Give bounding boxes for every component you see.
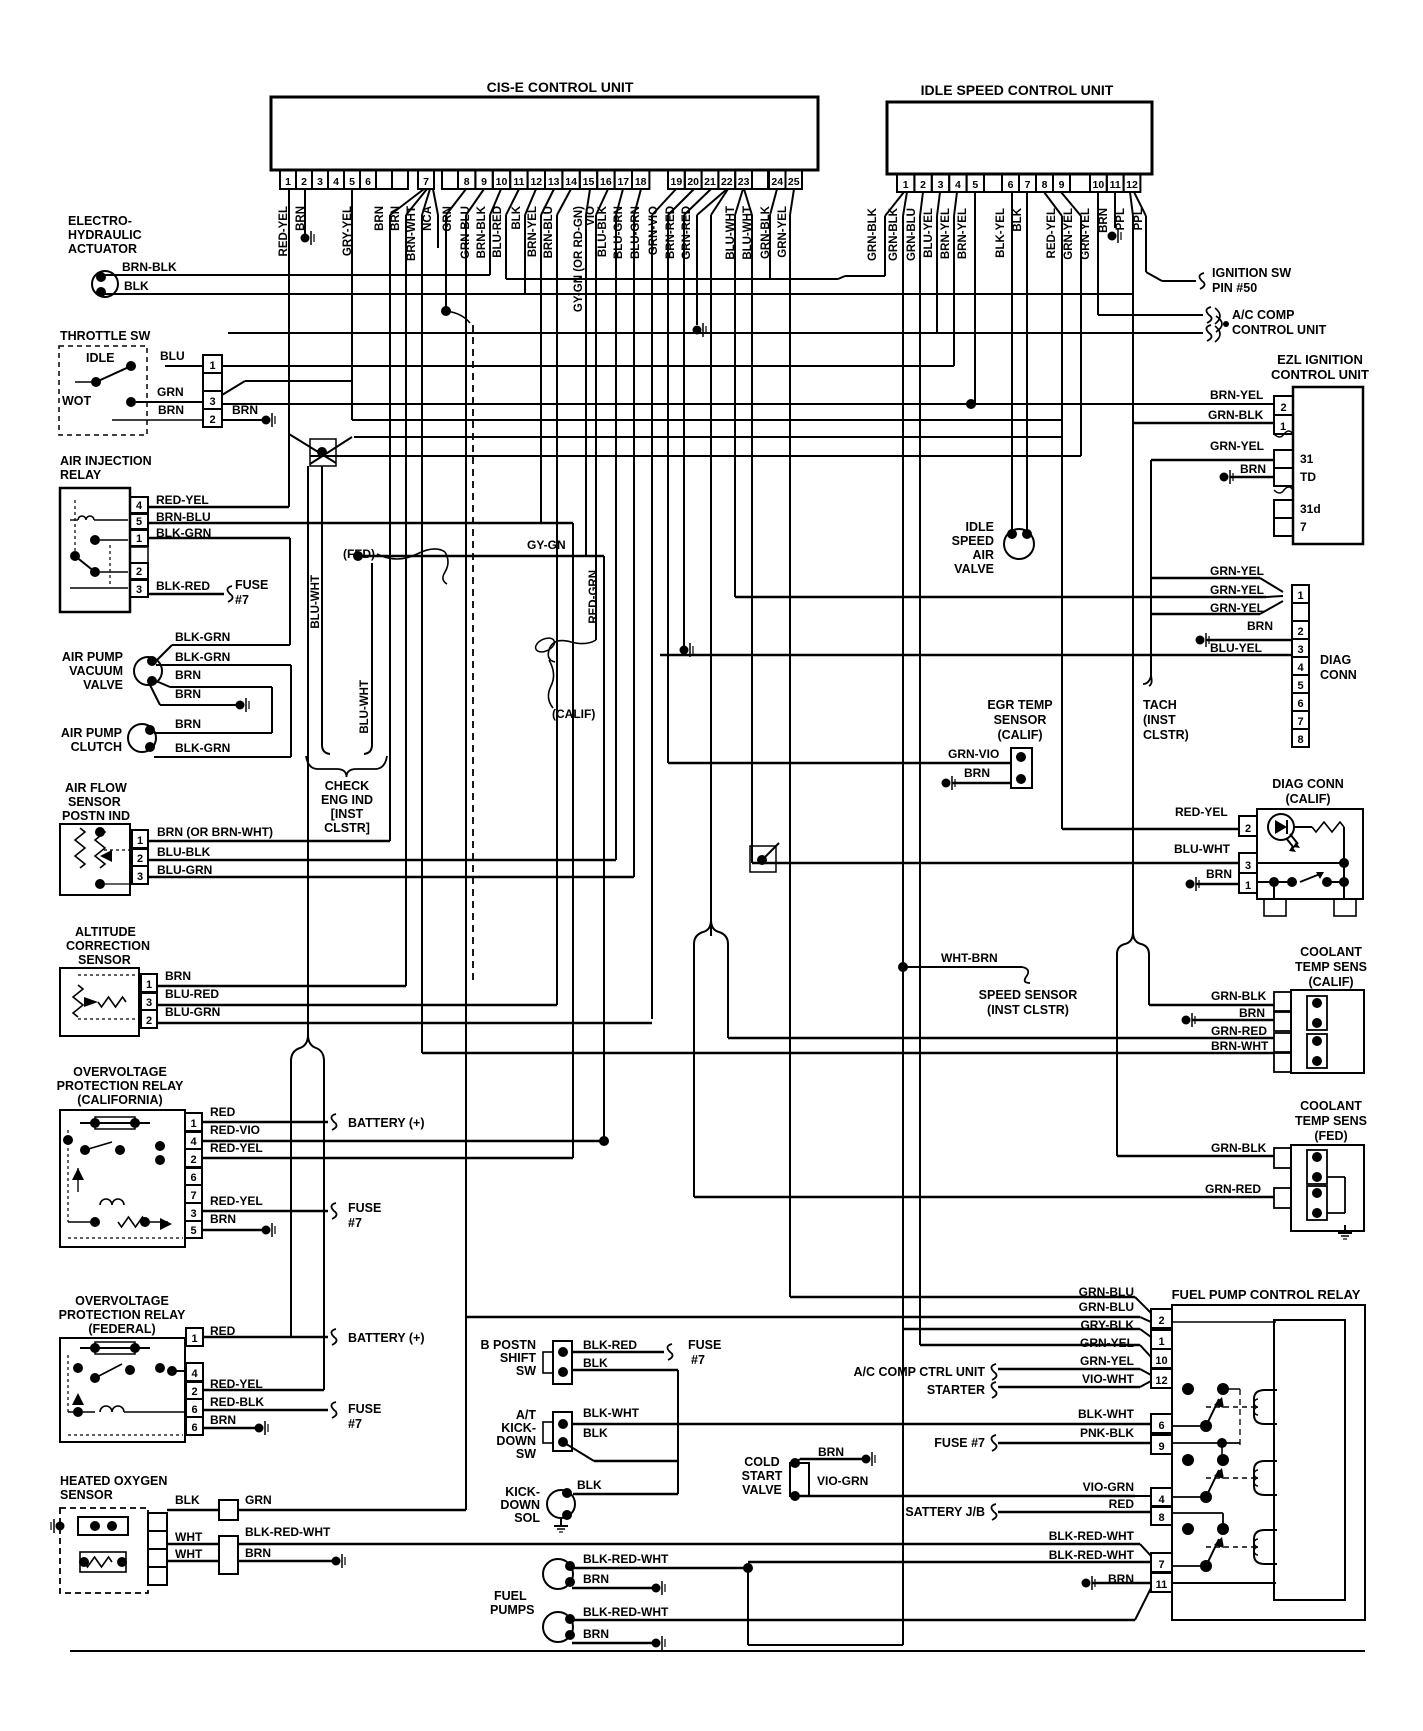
svg-text:GRN-YEL: GRN-YEL (777, 206, 789, 258)
svg-text:GRN-YEL: GRN-YEL (1080, 1354, 1134, 1368)
svg-text:BLK: BLK (511, 205, 523, 229)
svg-text:CORRECTION: CORRECTION (66, 939, 150, 953)
svg-text:2: 2 (1280, 402, 1286, 414)
svg-text:4: 4 (136, 500, 143, 512)
svg-text:B POSTN: B POSTN (480, 1338, 536, 1352)
svg-text:BLK-RED-WHT: BLK-RED-WHT (245, 1525, 331, 1539)
svg-text:CONTROL UNIT: CONTROL UNIT (1271, 367, 1369, 382)
svg-text:BRN-BLK: BRN-BLK (122, 260, 177, 274)
svg-text:#7: #7 (348, 1417, 362, 1431)
svg-text:AIR PUMP: AIR PUMP (62, 650, 123, 664)
svg-text:FUSE: FUSE (235, 578, 268, 592)
svg-text:6: 6 (1158, 1420, 1164, 1432)
svg-text:PIN #50: PIN #50 (1212, 281, 1257, 295)
svg-text:AIR: AIR (972, 548, 994, 562)
svg-text:3: 3 (1297, 644, 1303, 656)
svg-text:ACTUATOR: ACTUATOR (68, 242, 137, 256)
svg-text:BLU-GRN: BLU-GRN (630, 206, 642, 259)
svg-text:FUSE: FUSE (348, 1201, 381, 1215)
svg-text:KICK-: KICK- (505, 1485, 540, 1499)
svg-text:25: 25 (788, 176, 800, 188)
svg-text:SOL: SOL (514, 1511, 540, 1525)
svg-text:(CALIF): (CALIF) (1308, 975, 1353, 989)
svg-text:2: 2 (136, 566, 142, 578)
svg-text:GRN: GRN (442, 206, 454, 232)
svg-text:OVERVOLTAGE: OVERVOLTAGE (73, 1065, 167, 1079)
svg-text:VIO-WHT: VIO-WHT (1082, 1372, 1135, 1386)
svg-text:3: 3 (137, 871, 143, 883)
svg-text:2: 2 (1158, 1315, 1164, 1327)
svg-text:BLK-GRN: BLK-GRN (175, 741, 230, 755)
svg-text:BATTERY (+): BATTERY (+) (348, 1116, 425, 1130)
svg-text:RED-YEL: RED-YEL (156, 493, 209, 507)
svg-text:VALVE: VALVE (83, 678, 123, 692)
svg-text:3: 3 (136, 584, 142, 596)
svg-text:FUSE: FUSE (348, 1402, 381, 1416)
svg-text:6: 6 (191, 1422, 197, 1434)
svg-text:(INST CLSTR): (INST CLSTR) (987, 1003, 1069, 1017)
svg-text:7: 7 (1025, 179, 1031, 191)
svg-text:1: 1 (137, 835, 143, 847)
svg-text:6: 6 (191, 1404, 197, 1416)
svg-text:A/T: A/T (516, 1408, 537, 1422)
svg-text:HEATED OXYGEN: HEATED OXYGEN (60, 1474, 167, 1488)
svg-text:BLU: BLU (160, 349, 185, 363)
svg-text:6: 6 (1008, 179, 1014, 191)
svg-text:BATTERY (+): BATTERY (+) (348, 1331, 425, 1345)
svg-text:(CALIF): (CALIF) (997, 728, 1042, 742)
svg-text:TACH: TACH (1143, 698, 1177, 712)
svg-text:PUMPS: PUMPS (490, 1603, 534, 1617)
svg-text:CONN: CONN (1320, 668, 1357, 682)
svg-text:8: 8 (464, 176, 470, 188)
svg-text:3: 3 (938, 179, 944, 191)
svg-text:11: 11 (1110, 179, 1121, 191)
svg-text:VALVE: VALVE (742, 1483, 782, 1497)
svg-text:GRN-BLK: GRN-BLK (888, 207, 900, 261)
svg-text:7: 7 (423, 176, 429, 188)
svg-text:GRN-YEL: GRN-YEL (1210, 564, 1264, 578)
svg-text:FUSE: FUSE (688, 1338, 721, 1352)
svg-text:1: 1 (285, 176, 291, 188)
svg-text:GRN-YEL: GRN-YEL (1063, 208, 1075, 260)
svg-text:2: 2 (1245, 823, 1251, 835)
svg-text:23: 23 (738, 176, 750, 188)
svg-text:EGR TEMP: EGR TEMP (987, 698, 1052, 712)
svg-text:VACUUM: VACUUM (69, 664, 123, 678)
svg-text:22: 22 (721, 176, 733, 188)
svg-text:GY-GN: GY-GN (527, 538, 566, 552)
svg-text:GRN-YEL: GRN-YEL (1080, 1336, 1134, 1350)
svg-text:3: 3 (1245, 860, 1251, 872)
svg-text:BRN: BRN (583, 1627, 609, 1641)
svg-text:31d: 31d (1300, 502, 1321, 516)
svg-text:GRN-BLK: GRN-BLK (1208, 408, 1264, 422)
svg-text:8: 8 (1158, 1512, 1164, 1524)
svg-text:BLU-BLK: BLU-BLK (597, 205, 609, 257)
svg-text:12: 12 (530, 176, 542, 188)
svg-text:DOWN: DOWN (500, 1498, 540, 1512)
svg-text:BRN: BRN (1206, 867, 1232, 881)
svg-text:A/C COMP: A/C COMP (1232, 308, 1295, 322)
svg-text:GRN: GRN (245, 1493, 272, 1507)
svg-text:CLSTR): CLSTR) (1143, 728, 1189, 742)
svg-text:(FEDERAL): (FEDERAL) (88, 1322, 155, 1336)
svg-text:GY-GN (OR RD-GN): GY-GN (OR RD-GN) (573, 206, 585, 312)
svg-text:CHECK: CHECK (325, 779, 369, 793)
svg-text:5: 5 (190, 1225, 196, 1237)
svg-text:4: 4 (1158, 1494, 1165, 1506)
svg-text:BLU-GRN: BLU-GRN (613, 206, 625, 259)
svg-text:CONTROL UNIT: CONTROL UNIT (1232, 323, 1327, 337)
svg-text:AIR INJECTION: AIR INJECTION (60, 454, 152, 468)
svg-text:20: 20 (687, 176, 699, 188)
svg-text:STARTER: STARTER (927, 1383, 985, 1397)
svg-text:TEMP SENS: TEMP SENS (1295, 960, 1367, 974)
svg-text:BLU-YEL: BLU-YEL (923, 208, 935, 258)
svg-text:(FED): (FED) (1314, 1129, 1347, 1143)
svg-text:BLK: BLK (583, 1356, 608, 1370)
svg-text:7: 7 (1158, 1559, 1164, 1571)
svg-text:11: 11 (1156, 1579, 1168, 1591)
svg-text:BRN: BRN (964, 766, 990, 780)
svg-text:COLD: COLD (744, 1455, 779, 1469)
svg-text:(CALIFORNIA): (CALIFORNIA) (77, 1093, 162, 1107)
svg-text:12: 12 (1155, 1375, 1167, 1387)
svg-text:GRN-BLU: GRN-BLU (906, 208, 918, 261)
svg-text:BRN-YEL: BRN-YEL (940, 208, 952, 259)
svg-text:WHT: WHT (175, 1547, 203, 1561)
svg-text:11: 11 (513, 176, 524, 188)
svg-text:1: 1 (1158, 1336, 1164, 1348)
svg-text:BRN: BRN (175, 668, 201, 682)
svg-text:15: 15 (583, 176, 595, 188)
svg-text:BLU-WHT: BLU-WHT (1174, 842, 1231, 856)
svg-text:19: 19 (671, 176, 683, 188)
svg-text:4: 4 (190, 1136, 197, 1148)
svg-text:BRN: BRN (1239, 1006, 1265, 1020)
svg-text:THROTTLE SW: THROTTLE SW (60, 329, 150, 343)
svg-text:BLU-RED: BLU-RED (165, 987, 219, 1001)
svg-text:1: 1 (903, 179, 909, 191)
svg-text:6: 6 (365, 176, 371, 188)
svg-text:BLU-RED: BLU-RED (492, 206, 504, 258)
svg-text:BRN-BLU: BRN-BLU (543, 206, 555, 258)
svg-text:RED: RED (210, 1105, 236, 1119)
svg-text:IDLE: IDLE (966, 520, 994, 534)
svg-text:31: 31 (1300, 452, 1314, 466)
svg-text:1: 1 (209, 360, 215, 372)
svg-text:RED-GRN: RED-GRN (588, 570, 600, 624)
svg-text:WHT: WHT (175, 1530, 203, 1544)
svg-text:HYDRAULIC: HYDRAULIC (68, 228, 142, 242)
svg-text:SENSOR: SENSOR (60, 1488, 113, 1502)
svg-text:BLK-RED-WHT: BLK-RED-WHT (583, 1552, 669, 1566)
svg-text:GRN-BLK: GRN-BLK (1211, 989, 1267, 1003)
svg-text:OVERVOLTAGE: OVERVOLTAGE (75, 1294, 169, 1308)
svg-text:8: 8 (1042, 179, 1048, 191)
svg-text:TD: TD (1300, 470, 1316, 484)
svg-text:BRN: BRN (158, 403, 184, 417)
svg-text:RED-VIO: RED-VIO (210, 1123, 260, 1137)
svg-text:4: 4 (1297, 662, 1304, 674)
svg-text:BLU-WHT: BLU-WHT (359, 680, 371, 734)
svg-text:FUSE #7: FUSE #7 (934, 1436, 985, 1450)
svg-text:SPEED: SPEED (952, 534, 994, 548)
svg-text:BLU-GRN: BLU-GRN (165, 1005, 220, 1019)
svg-text:BRN-RED: BRN-RED (665, 206, 677, 259)
svg-text:IGNITION SW: IGNITION SW (1212, 266, 1291, 280)
svg-text:BLK: BLK (583, 1426, 608, 1440)
svg-text:BLK-GRN: BLK-GRN (175, 630, 230, 644)
svg-text:BLK: BLK (577, 1478, 602, 1492)
svg-text:BLK-WHT: BLK-WHT (583, 1406, 640, 1420)
svg-text:SW: SW (516, 1447, 536, 1461)
svg-text:BLK: BLK (175, 1493, 200, 1507)
svg-text:GRN-VIO: GRN-VIO (948, 747, 999, 761)
svg-text:3: 3 (317, 176, 323, 188)
svg-text:3: 3 (190, 1208, 196, 1220)
svg-text:#7: #7 (348, 1216, 362, 1230)
svg-text:1: 1 (190, 1118, 196, 1130)
svg-text:(INST: (INST (1143, 713, 1176, 727)
svg-text:RED-YEL: RED-YEL (1046, 208, 1058, 258)
svg-text:GRN-BLK: GRN-BLK (1211, 1141, 1267, 1155)
svg-text:GRN-BLK: GRN-BLK (867, 207, 879, 261)
svg-text:BRN: BRN (210, 1413, 236, 1427)
svg-text:SENSOR: SENSOR (68, 795, 121, 809)
svg-text:BRN: BRN (583, 1572, 609, 1586)
svg-text:IDLE SPEED CONTROL UNIT: IDLE SPEED CONTROL UNIT (921, 82, 1114, 98)
svg-text:BLK: BLK (1012, 207, 1024, 231)
svg-text:9: 9 (1059, 179, 1065, 191)
svg-text:GRN-RED: GRN-RED (681, 206, 693, 260)
svg-text:BLK-RED: BLK-RED (583, 1338, 637, 1352)
svg-text:4: 4 (191, 1368, 198, 1380)
svg-text:RELAY: RELAY (60, 468, 102, 482)
svg-text:BLK: BLK (124, 279, 149, 293)
svg-text:2: 2 (191, 1386, 197, 1398)
svg-text:2: 2 (190, 1154, 196, 1166)
svg-text:GRN-BLU: GRN-BLU (1079, 1300, 1134, 1314)
svg-text:1: 1 (146, 979, 152, 991)
svg-text:BLK-RED-WHT: BLK-RED-WHT (1049, 1529, 1135, 1543)
svg-text:5: 5 (136, 516, 142, 528)
svg-text:16: 16 (600, 176, 612, 188)
svg-text:GRN: GRN (157, 385, 184, 399)
svg-text:BRN (OR BRN-WHT): BRN (OR BRN-WHT) (157, 825, 273, 839)
svg-text:TEMP SENS: TEMP SENS (1295, 1114, 1367, 1128)
svg-text:BRN: BRN (175, 687, 201, 701)
svg-text:GRN-YEL: GRN-YEL (1210, 583, 1264, 597)
svg-text:8: 8 (1297, 734, 1303, 746)
svg-text:(CALIF): (CALIF) (1285, 792, 1330, 806)
svg-text:2: 2 (920, 179, 926, 191)
svg-text:ALTITUDE: ALTITUDE (75, 925, 136, 939)
svg-text:BLK-RED-WHT: BLK-RED-WHT (583, 1605, 669, 1619)
svg-text:5: 5 (1297, 680, 1303, 692)
svg-text:9: 9 (1158, 1441, 1164, 1453)
svg-text:PNK-BLK: PNK-BLK (1080, 1426, 1134, 1440)
svg-text:A/C COMP CTRL UNIT: A/C COMP CTRL UNIT (854, 1365, 986, 1379)
svg-text:BRN-WHT: BRN-WHT (1211, 1039, 1269, 1053)
svg-text:RED-YEL: RED-YEL (210, 1194, 263, 1208)
svg-text:AIR PUMP: AIR PUMP (61, 726, 122, 740)
svg-text:VIO-GRN: VIO-GRN (1083, 1480, 1134, 1494)
svg-text:FUEL PUMP CONTROL RELAY: FUEL PUMP CONTROL RELAY (1172, 1287, 1361, 1302)
svg-text:COOLANT: COOLANT (1300, 945, 1362, 959)
svg-text:RED-BLK: RED-BLK (210, 1395, 264, 1409)
svg-text:1: 1 (1297, 590, 1303, 602)
svg-text:BRN: BRN (1247, 619, 1273, 633)
svg-text:BLU-YEL: BLU-YEL (1210, 641, 1262, 655)
svg-text:BRN-YEL: BRN-YEL (527, 206, 539, 257)
svg-text:CIS-E CONTROL UNIT: CIS-E CONTROL UNIT (487, 79, 634, 95)
svg-text:18: 18 (635, 176, 647, 188)
svg-text:PPL: PPL (1115, 208, 1127, 230)
svg-text:2: 2 (1297, 626, 1303, 638)
svg-text:GRN-RED: GRN-RED (1205, 1182, 1261, 1196)
svg-text:7: 7 (190, 1190, 196, 1202)
svg-text:RED: RED (1109, 1497, 1135, 1511)
svg-text:BRN: BRN (1240, 462, 1266, 476)
svg-text:BLK-WHT: BLK-WHT (1078, 1407, 1135, 1421)
svg-text:6: 6 (190, 1172, 196, 1184)
svg-text:2: 2 (137, 853, 143, 865)
svg-text:BRN: BRN (374, 206, 386, 231)
svg-text:BLK-GRN: BLK-GRN (175, 650, 230, 664)
svg-text:RED-YEL: RED-YEL (210, 1141, 263, 1155)
svg-text:SW: SW (516, 1364, 536, 1378)
svg-text:DOWN: DOWN (496, 1434, 536, 1448)
svg-text:DIAG: DIAG (1320, 653, 1351, 667)
svg-text:2: 2 (146, 1015, 152, 1027)
svg-text:BRN: BRN (818, 1445, 844, 1459)
svg-text:WOT: WOT (62, 394, 92, 408)
svg-text:[INST: [INST (331, 807, 364, 821)
svg-text:5: 5 (972, 179, 978, 191)
svg-text:POSTN IND: POSTN IND (62, 809, 130, 823)
svg-text:BRN: BRN (232, 403, 258, 417)
svg-text:4: 4 (333, 176, 339, 188)
svg-text:1: 1 (1280, 421, 1286, 433)
svg-text:BLU-BLK: BLU-BLK (157, 845, 211, 859)
svg-text:BRN-YEL: BRN-YEL (1210, 388, 1263, 402)
svg-text:24: 24 (771, 176, 783, 188)
svg-text:#7: #7 (691, 1353, 705, 1367)
svg-text:START: START (742, 1469, 783, 1483)
svg-text:PROTECTION RELAY: PROTECTION RELAY (59, 1308, 186, 1322)
svg-text:CLUTCH: CLUTCH (71, 740, 122, 754)
svg-text:GRN-RED: GRN-RED (1211, 1024, 1267, 1038)
svg-text:BRN-BLK: BRN-BLK (476, 205, 488, 258)
svg-text:SENSOR: SENSOR (78, 953, 131, 967)
svg-text:3: 3 (209, 396, 215, 408)
svg-text:BLU-GRN: BLU-GRN (157, 863, 212, 877)
svg-text:CLSTR]: CLSTR] (324, 821, 370, 835)
svg-text:12: 12 (1126, 179, 1138, 191)
svg-text:ENG IND: ENG IND (321, 793, 373, 807)
svg-text:7: 7 (1300, 520, 1307, 534)
svg-text:BRN-YEL: BRN-YEL (957, 208, 969, 259)
svg-text:SHIFT: SHIFT (500, 1351, 536, 1365)
svg-text:SATTERY J/B: SATTERY J/B (905, 1505, 985, 1519)
svg-text:1: 1 (1245, 880, 1251, 892)
svg-text:1: 1 (136, 533, 142, 545)
svg-text:BRN: BRN (210, 1212, 236, 1226)
svg-text:BRN: BRN (165, 969, 191, 983)
svg-text:17: 17 (617, 176, 629, 188)
svg-text:DIAG CONN: DIAG CONN (1272, 777, 1344, 791)
svg-text:SENSOR: SENSOR (994, 713, 1047, 727)
svg-text:1: 1 (191, 1333, 197, 1345)
svg-text:AIR FLOW: AIR FLOW (65, 781, 127, 795)
svg-text:5: 5 (349, 176, 355, 188)
svg-text:BLU-WHT: BLU-WHT (310, 575, 322, 629)
svg-text:#7: #7 (235, 593, 249, 607)
svg-text:2: 2 (301, 176, 307, 188)
svg-text:BLK-RED-WHT: BLK-RED-WHT (1049, 1548, 1135, 1562)
svg-text:KICK-: KICK- (501, 1421, 536, 1435)
svg-text:VIO-GRN: VIO-GRN (817, 1474, 868, 1488)
svg-text:BRN: BRN (1098, 208, 1110, 233)
svg-text:3: 3 (146, 997, 152, 1009)
svg-text:21: 21 (704, 176, 716, 188)
svg-text:14: 14 (565, 176, 577, 188)
svg-text:ELECTRO-: ELECTRO- (68, 214, 132, 228)
svg-text:10: 10 (496, 176, 508, 188)
svg-text:10: 10 (1155, 1355, 1167, 1367)
svg-text:7: 7 (1297, 716, 1303, 728)
svg-text:4: 4 (955, 179, 961, 191)
svg-text:9: 9 (481, 176, 487, 188)
svg-text:13: 13 (548, 176, 560, 188)
svg-text:PROTECTION RELAY: PROTECTION RELAY (57, 1079, 184, 1093)
svg-text:10: 10 (1093, 179, 1105, 191)
svg-text:GRN-YEL: GRN-YEL (1210, 439, 1264, 453)
svg-text:EZL IGNITION: EZL IGNITION (1277, 352, 1363, 367)
svg-text:BRN: BRN (245, 1546, 271, 1560)
svg-text:BRN: BRN (175, 717, 201, 731)
svg-text:IDLE: IDLE (86, 351, 114, 365)
svg-text:VALVE: VALVE (954, 562, 994, 576)
svg-text:BLK-RED: BLK-RED (156, 579, 210, 593)
svg-text:BLK-YEL: BLK-YEL (995, 208, 1007, 258)
svg-text:2: 2 (209, 414, 215, 426)
svg-text:RED-YEL: RED-YEL (1175, 805, 1228, 819)
svg-text:6: 6 (1297, 698, 1303, 710)
svg-text:WHT-BRN: WHT-BRN (941, 951, 998, 965)
svg-text:COOLANT: COOLANT (1300, 1099, 1362, 1113)
svg-text:FUEL: FUEL (494, 1589, 527, 1603)
svg-text:SPEED SENSOR: SPEED SENSOR (979, 988, 1078, 1002)
